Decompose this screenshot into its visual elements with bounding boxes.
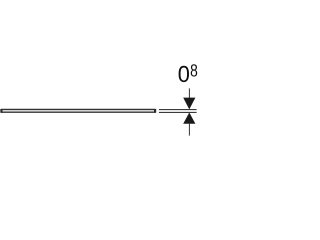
dimension leader line top <box>188 88 190 100</box>
arrowhead pointing up <box>183 113 195 124</box>
panel cross-section (thin plate, side view) <box>1 109 155 112</box>
panel left end cap <box>0 109 2 113</box>
dimension value 0 <box>179 66 189 82</box>
panel right end cap <box>154 109 156 113</box>
dimension leader line bottom <box>188 123 190 136</box>
extension line top <box>159 109 197 111</box>
arrowhead pointing down <box>183 98 195 110</box>
extension line bottom <box>159 111 197 113</box>
dimension superscript 8 <box>191 64 198 76</box>
